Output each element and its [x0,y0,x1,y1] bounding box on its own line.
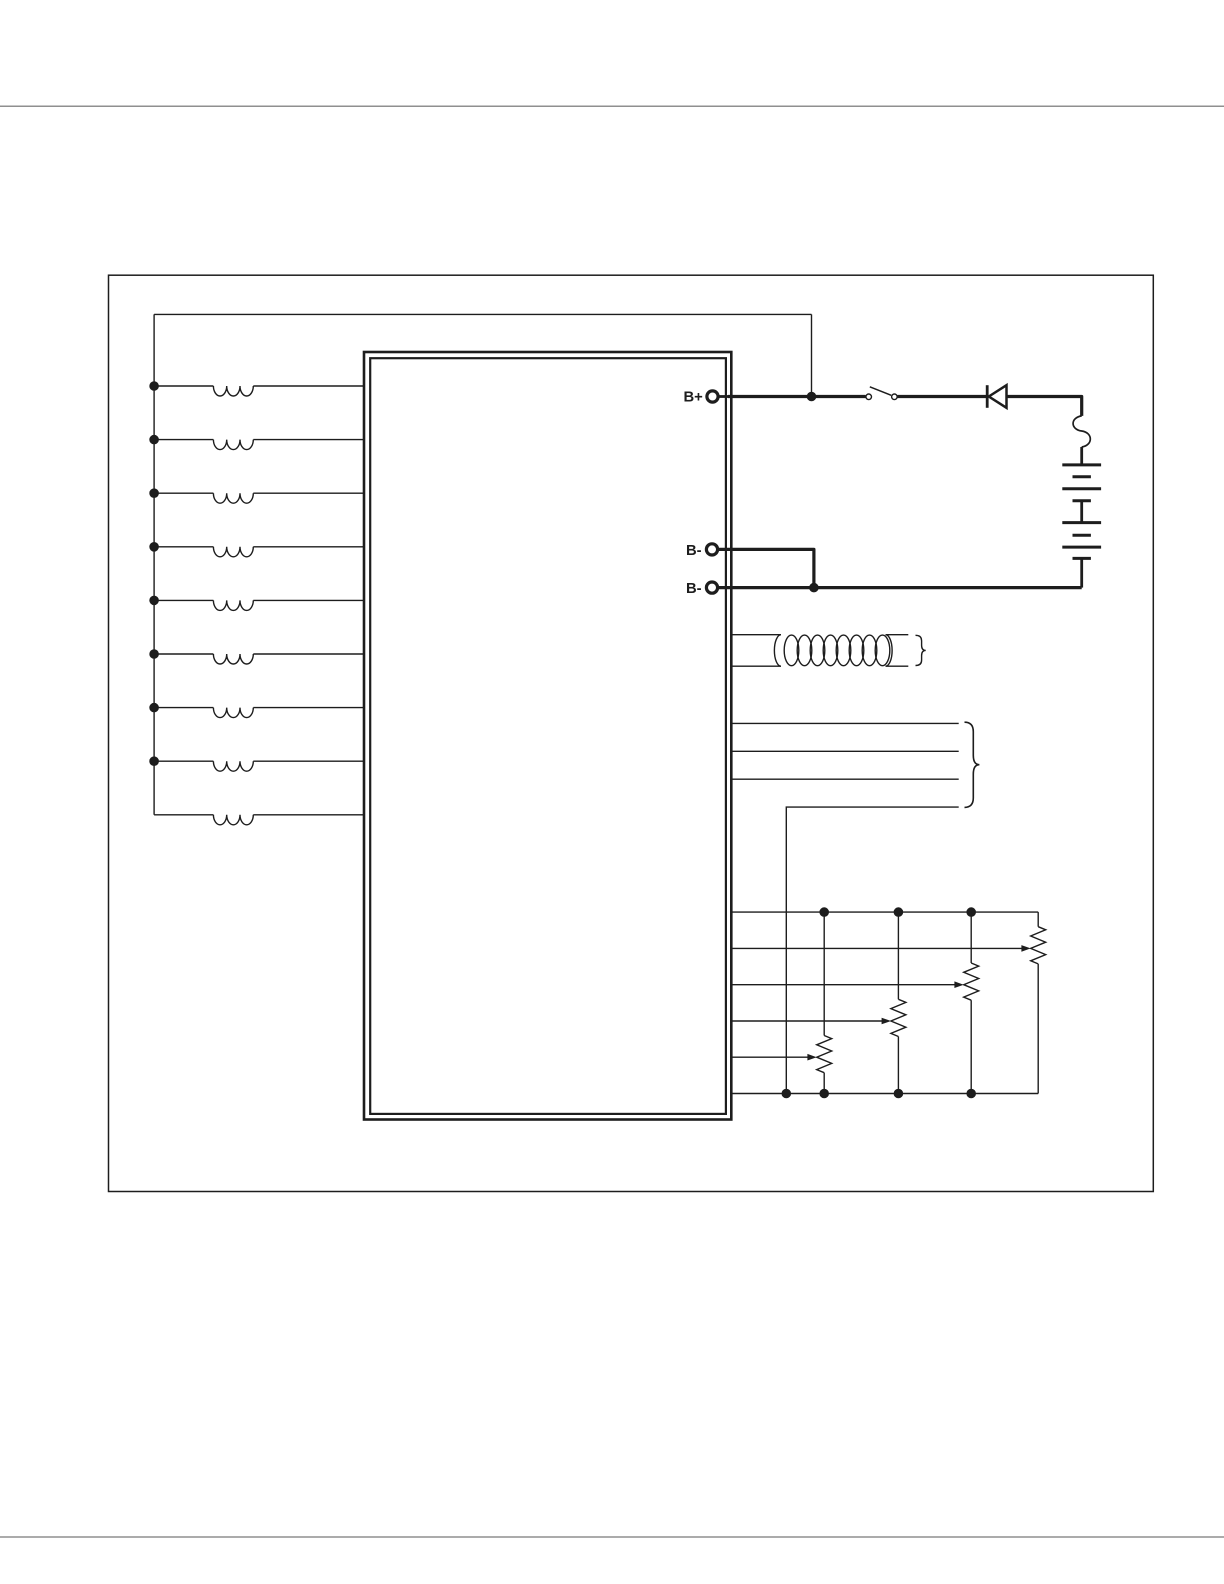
battery plate short 2 [1073,499,1091,502]
junction node bottom bus 0 [782,1089,790,1097]
junction node on B+ wire [807,392,815,400]
injector coil row 4 [154,547,364,557]
glow coil right flare [886,635,893,667]
battery lead bottom [1080,558,1083,587]
glow coil winding [784,635,890,666]
battery plate long 4 [1062,546,1101,549]
potentiometer R2 element [891,912,906,1093]
junction node row 4 [150,543,158,551]
potentiometer R2 wiper feed [731,1018,891,1025]
page footer rule [0,1536,1224,1538]
wire: top bus of pot network [731,911,1038,913]
glow coil leads left [731,635,781,667]
fusible link squiggle [1073,416,1090,447]
battery plate short 4 [1073,557,1091,560]
wire: drop from top loop to B+ line [811,314,813,396]
sensor wire 3 [731,778,958,780]
potentiometer R3 wiper feed [731,981,963,988]
sensor wire 1 [731,722,958,724]
wire: left bus vertical [153,314,155,814]
figure border frame [109,275,1154,1191]
small brace [916,635,926,665]
junction node row 2 [150,436,158,444]
diode D1 triangle [989,385,1007,408]
junction node bottom bus 3 [967,1089,975,1097]
junction node bottom bus 2 [894,1089,902,1097]
battery plate long 1 [1062,463,1101,466]
large brace [965,722,980,807]
svg-text:B-: B- [686,543,702,559]
junction node row 6 [150,650,158,658]
wire: B+ to switch [728,395,866,398]
battery mid link [1080,501,1083,523]
injector coil row 7 [154,708,364,718]
injector coil row 5 [154,600,364,610]
glow coil leads right [886,635,909,667]
potentiometer R4 wiper feed [731,945,1030,952]
sensor wire 2 [731,750,958,752]
ECU block outer border [364,352,731,1120]
potentiometer R3 element [964,912,979,1093]
terminal B- lower ring [706,582,717,593]
diode D1 cathode bar [986,385,989,408]
wire: switch to diode [898,395,988,398]
switch S1 lever [870,387,891,396]
switch S1 contact left [866,394,872,400]
injector coil row 3 [154,493,364,503]
ECU block inner border [370,358,726,1114]
junction node bottom bus 1 [820,1089,828,1097]
battery BAT lead top [1080,447,1083,465]
potentiometer R1 element [817,912,832,1093]
injector coil row 2 [154,440,364,450]
injector coil row 8 [154,761,364,771]
battery plate short 3 [1073,534,1091,537]
potentiometer R4 element [1031,912,1046,1093]
injector coil row 1 [154,386,364,396]
sensor wire 4 with drop to bottom bus [786,807,958,1093]
wire: diode to battery top corner [1007,397,1082,416]
svg-text:B+: B+ [684,389,704,405]
battery plate long 2 [1062,487,1101,490]
wire: B- lower to battery [718,586,1082,589]
terminal B- upper ring [706,544,717,555]
injector coil row 6 [154,654,364,664]
junction node row 1 [150,382,158,390]
junction node top bus 1 [820,908,828,916]
battery plate long 3 [1062,521,1101,524]
glow coil left flare [774,635,781,667]
junction node row 7 [150,704,158,712]
wire: B- upper to junction [718,549,814,587]
junction node row 8 [150,757,158,765]
junction node top bus 2 [894,908,902,916]
injector coil row 9 [154,815,364,825]
potentiometer R1 wiper feed [731,1054,816,1061]
battery plate short 1 [1073,475,1091,478]
junction node row 3 [150,489,158,497]
junction node B- wires [810,584,818,592]
page header rule [0,105,1224,107]
wire: bottom bus of pot network [731,1093,1038,1095]
wire: top loop horizontal [154,313,811,315]
terminal B+ ring [707,391,718,402]
svg-text:B-: B- [686,581,702,597]
junction node top bus 3 [967,908,975,916]
switch S1 contact right [892,394,898,400]
wire: B+ stub through border [719,395,729,398]
junction node row 5 [150,596,158,604]
